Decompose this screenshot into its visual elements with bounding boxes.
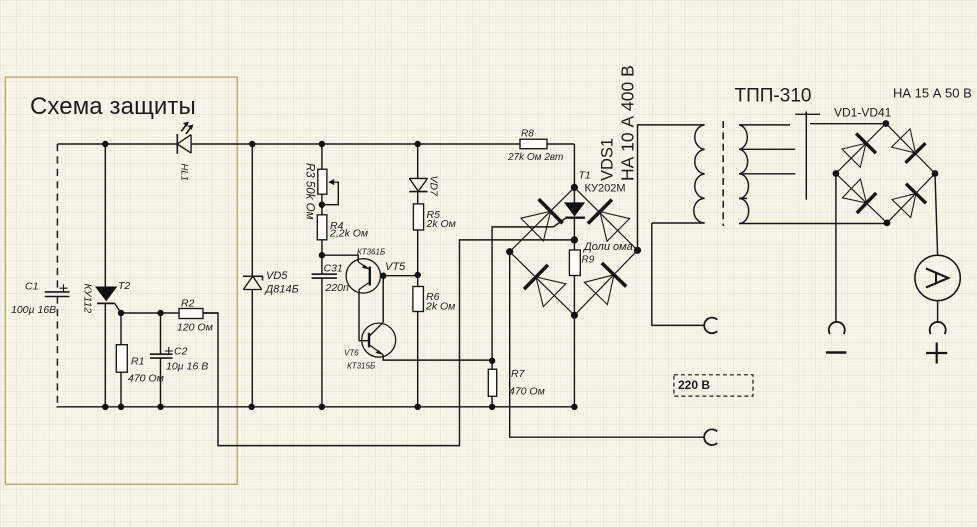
node: VD bridge bottom corner bbox=[884, 220, 891, 227]
resistor R9 bbox=[569, 250, 580, 276]
ammeter letter A rotated bbox=[926, 269, 948, 288]
transistor VT5 КТ361Б (pnp) bbox=[346, 259, 380, 293]
svg-text:2k Ом: 2k Ом bbox=[426, 218, 456, 230]
node: rail / T2 anode bbox=[102, 141, 108, 147]
220 V dashed label box bbox=[674, 375, 753, 396]
VDS1 bridge edges bbox=[510, 187, 638, 315]
svg-text:VT5: VT5 bbox=[385, 261, 406, 273]
svg-text:R8: R8 bbox=[521, 129, 534, 140]
VD bridge diode upper-right bbox=[892, 129, 926, 163]
R3 wiper arrowhead bbox=[328, 179, 334, 185]
wire: gate node rail y=313 bbox=[121, 312, 218, 314]
node: bottom rail / VD5 bbox=[248, 404, 254, 410]
wire: R3/R4 divider branch x=321.9 bbox=[321, 144, 323, 407]
node: bottom rail / C31 bbox=[319, 404, 325, 410]
minus output connector bbox=[829, 322, 845, 334]
mains socket connector upper bbox=[704, 318, 717, 334]
node: VD bridge left corner bbox=[833, 170, 840, 177]
svg-text:C2: C2 bbox=[174, 346, 188, 358]
wire: VT5 base to R5/R6 node bbox=[380, 275, 418, 277]
VT5 emitter arrow into base bbox=[362, 265, 370, 270]
C2 polarity plus bbox=[165, 347, 173, 355]
wire: secondary top to VD bridge top corner bbox=[810, 123, 886, 125]
svg-text:VT6: VT6 bbox=[344, 349, 359, 358]
svg-text:КТ361Б: КТ361Б bbox=[357, 248, 385, 257]
node: gate rail / C2 bbox=[157, 310, 163, 316]
svg-text:470 Ом: 470 Ом bbox=[128, 373, 164, 385]
svg-text:R9: R9 bbox=[582, 255, 595, 266]
mains socket connector lower bbox=[704, 429, 717, 445]
wire: R1 branch bbox=[120, 313, 122, 407]
wire: bridge left corner to mains connector bbox=[510, 252, 704, 438]
VD bridge diode upper-left bbox=[842, 133, 876, 167]
svg-text:C1: C1 bbox=[25, 281, 38, 293]
diode VD7 bbox=[409, 178, 427, 191]
svg-text:10µ 16 В: 10µ 16 В bbox=[166, 361, 208, 373]
svg-text:VDS1: VDS1 bbox=[599, 138, 617, 181]
svg-text:НА 15 А 50 В: НА 15 А 50 В bbox=[893, 86, 972, 101]
node: bottom rail / R7 bbox=[489, 404, 495, 410]
thyristor T2 КУ112 bbox=[96, 287, 116, 301]
VDS1 diode lower-left bbox=[524, 265, 566, 307]
plus output connector bbox=[930, 322, 946, 334]
svg-text:100µ 16В: 100µ 16В bbox=[11, 304, 56, 316]
svg-text:НА 10 А 400 В: НА 10 А 400 В bbox=[618, 65, 638, 181]
wire: VT6 collector to VT5 base node bbox=[382, 276, 384, 323]
svg-text:27k Ом 2вт: 27k Ом 2вт bbox=[507, 152, 563, 163]
node: rail / VD7 bbox=[415, 141, 421, 147]
svg-text:R7: R7 bbox=[511, 368, 526, 380]
node: VDS1 bottom corner bbox=[571, 312, 578, 319]
node: bottom rail / R1 bbox=[118, 404, 124, 410]
svg-text:VD1-VD41: VD1-VD41 bbox=[834, 106, 892, 120]
wire: tap selector bar bbox=[795, 112, 820, 200]
capacitor C1 plates bbox=[45, 292, 70, 297]
transformer secondary winding bbox=[739, 125, 749, 224]
node: R7 top / VT6 emitter / T1 gate bbox=[489, 358, 495, 364]
transformer core bbox=[722, 121, 724, 226]
wire: VT6 emitter to R7/gate node bbox=[383, 355, 492, 360]
resistor R6 bbox=[413, 287, 424, 312]
wire: VD bridge left corner to minus terminal bbox=[835, 174, 837, 323]
node: T2 gate / R1 bbox=[118, 310, 124, 316]
wire: C2 branch bbox=[160, 313, 162, 407]
node: bottom rail / R6 bbox=[415, 404, 421, 410]
wire: R7 leads bbox=[491, 361, 493, 407]
VD1-VD41 bridge edges bbox=[836, 124, 935, 223]
svg-text:VD7: VD7 bbox=[428, 176, 440, 198]
wire: T1 gate line bbox=[492, 218, 565, 360]
node: VDS1 right corner bbox=[634, 247, 641, 254]
node: bottom rail / T2 cathode bbox=[102, 404, 108, 410]
svg-text:R2: R2 bbox=[181, 298, 195, 310]
wire: primary bottom to mains connector bbox=[652, 223, 705, 325]
wire: thyristor T2 branch x=105.3 bbox=[104, 144, 106, 407]
node: bottom rail / C2 bbox=[157, 404, 163, 410]
node: VD bridge top corner bbox=[883, 120, 890, 127]
capacitor C31 plates bbox=[312, 274, 337, 278]
node: VT5 base / VT6 collector bbox=[380, 273, 386, 279]
wire: T2 gate lead bbox=[115, 303, 121, 313]
plus sign bbox=[926, 343, 947, 364]
svg-text:Т2: Т2 bbox=[118, 280, 130, 292]
wire: T1 anode/cathode stubs and R9 bbox=[573, 187, 575, 315]
node: VD bridge right corner bbox=[932, 170, 939, 177]
svg-text:КТ315Б: КТ315Б bbox=[347, 362, 375, 371]
svg-text:220 В: 220 В bbox=[678, 378, 710, 392]
node: VDS1 top corner bbox=[571, 184, 578, 191]
svg-text:Д814Б: Д814Б bbox=[264, 284, 299, 296]
wire: top supply rail y=144 bbox=[57, 143, 574, 145]
wire: bottom rail y=406.8 bbox=[57, 406, 575, 408]
wire: bridge bottom corner to rail bbox=[573, 315, 575, 407]
node: rail / R3 bbox=[319, 141, 325, 147]
svg-text:R1: R1 bbox=[131, 356, 144, 368]
VDS1 diode lower-right bbox=[584, 263, 626, 305]
VDS1 diode upper-right bbox=[588, 200, 630, 242]
wire: dashed mains branch x=57.4 with C1 in series bbox=[56, 144, 58, 407]
svg-text:470 Ом: 470 Ом bbox=[509, 386, 545, 398]
wire: bridge top feed bbox=[573, 144, 575, 187]
wire: R3 wiper rheostat link bbox=[322, 182, 338, 205]
svg-text:VD5: VD5 bbox=[266, 270, 288, 282]
minus sign bbox=[826, 351, 847, 354]
svg-text:2,2k Ом: 2,2k Ом bbox=[329, 228, 368, 240]
wire: R2 output loop to bridge cathode node bbox=[203, 240, 574, 446]
svg-text:ТПП-310: ТПП-310 bbox=[735, 86, 812, 107]
resistor R8 bbox=[520, 139, 547, 149]
svg-text:120 Ом: 120 Ом bbox=[177, 322, 213, 334]
wire: bridge right corner to transformer primary bbox=[638, 125, 705, 250]
transformer T primary winding bbox=[694, 121, 749, 226]
svg-text:Т1: Т1 bbox=[579, 170, 591, 182]
node: bottom rail / VDS1 bottom bbox=[571, 404, 577, 410]
VD bridge diode lower-left bbox=[842, 179, 876, 213]
resistor R1 bbox=[116, 345, 127, 373]
wire: zener VD5 branch x=252.3 bbox=[251, 144, 253, 407]
resistor R4 bbox=[317, 215, 327, 240]
resistor R7 bbox=[488, 369, 496, 396]
transistor VT6 КТ315Б (npn) bbox=[362, 322, 396, 357]
node: T1 cathode / R9 top bbox=[571, 236, 578, 243]
capacitor C2 plates bbox=[150, 354, 173, 358]
svg-text:КУ202М: КУ202М bbox=[585, 183, 626, 195]
wire: secondary taps bbox=[739, 125, 795, 198]
LED HL1 bbox=[177, 124, 192, 154]
svg-text:2k Ом: 2k Ом bbox=[425, 301, 455, 313]
VD bridge diode lower-right bbox=[892, 184, 926, 218]
zener VD5 bbox=[243, 276, 263, 289]
svg-text:220п: 220п bbox=[325, 282, 350, 294]
node: rail / VD5 bbox=[249, 141, 255, 147]
wire: VT5 collector to VT6 base bbox=[359, 290, 369, 341]
VDS1 diode upper-left bbox=[521, 199, 563, 241]
svg-text:Доли ома: Доли ома bbox=[582, 241, 633, 253]
svg-text:R3 50k Ом: R3 50k Ом bbox=[304, 163, 316, 220]
node: R3 wiper junction bbox=[319, 202, 325, 208]
resistor R2 bbox=[179, 309, 203, 319]
thyristor T1 КУ202М bbox=[565, 203, 584, 216]
VT6 emitter arrow bbox=[376, 350, 384, 355]
wire: VD7/R5/R6 branch x=417.7 bbox=[417, 144, 419, 407]
node: R4/C31/VT5 emitter bbox=[319, 252, 325, 258]
protection-circuit boundary box bbox=[5, 77, 237, 484]
resistor R5 bbox=[413, 204, 423, 230]
wire: secondary bottom to VD bridge bottom corner bbox=[739, 222, 887, 225]
svg-text:Схема защиты: Схема защиты bbox=[30, 93, 196, 120]
C1 polarity plus bbox=[60, 284, 68, 292]
ammeter PA bbox=[915, 255, 960, 300]
svg-text:КУ112: КУ112 bbox=[82, 284, 94, 314]
node: R5/R6 junction bbox=[415, 272, 421, 278]
node: VDS1 left corner bbox=[506, 248, 513, 255]
resistor R3 (preset) bbox=[318, 169, 327, 194]
svg-text:C31: C31 bbox=[324, 263, 343, 275]
wire: VT5 emitter feed y=255.2 bbox=[322, 255, 358, 262]
wire: VD bridge right corner to ammeter bbox=[935, 174, 938, 323]
svg-text:HL1: HL1 bbox=[179, 164, 190, 181]
